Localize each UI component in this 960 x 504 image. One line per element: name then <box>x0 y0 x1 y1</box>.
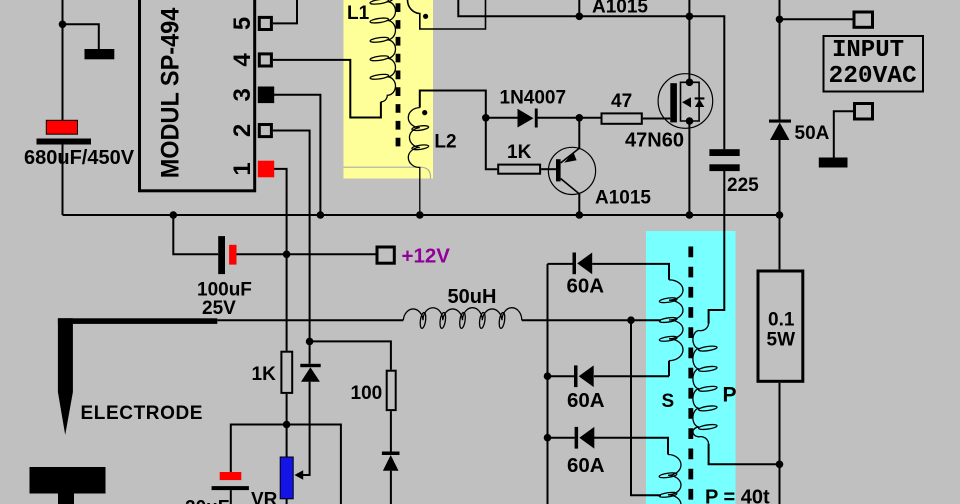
svg-text:1N4007: 1N4007 <box>500 88 567 109</box>
wire: electrode line to 50uH <box>217 319 403 321</box>
wire: L2 to 1N4007 node <box>420 91 486 118</box>
svg-text:20uF: 20uF <box>185 498 229 504</box>
wire: pin 5 to top edge <box>273 0 297 23</box>
wire: branch from node to snubber block <box>63 24 99 49</box>
S lower crossing ellipses <box>659 472 677 498</box>
pin 1 square (red) <box>258 161 274 178</box>
MOSFET 47N60 <box>658 74 713 129</box>
svg-text:5: 5 <box>229 17 256 30</box>
wire: 1K bottom to VR node and VR top <box>286 394 288 457</box>
wire: feedback node to zener and VR wiper <box>303 341 310 475</box>
wire: upper A1015 collector stub <box>578 0 580 16</box>
svg-text:50A: 50A <box>795 123 830 144</box>
wire: AC input terminal 1 branch <box>780 18 855 20</box>
svg-text:225: 225 <box>727 175 759 196</box>
wire: MOSFET drain from top rail <box>688 0 690 82</box>
transformer T1 winding L1 <box>381 0 396 102</box>
wire: VR bottom down <box>286 499 288 504</box>
svg-text:0.1: 0.1 <box>768 310 795 331</box>
+12V terminal <box>377 247 394 263</box>
junction: 680uF node <box>59 21 67 29</box>
electrode lead bar <box>58 318 217 324</box>
transformer T1 highlight region (yellow) <box>344 0 434 179</box>
wire: MOSFET source to ground bus <box>688 121 690 215</box>
wire: 225 cap to primary P top <box>709 171 725 324</box>
wire: diode row 3 to lower S <box>548 438 669 455</box>
svg-text:47: 47 <box>611 91 632 112</box>
wire: 50uH to S center tap <box>522 319 661 321</box>
resistor 1K (driver) <box>498 142 540 174</box>
wire: 100uF to +12V node <box>237 253 287 255</box>
wire: +12V node to terminal <box>287 253 377 255</box>
svg-text:3: 3 <box>229 88 256 101</box>
diode 60A (row 2) <box>567 365 605 412</box>
svg-text:INPUT: INPUT <box>832 37 904 64</box>
svg-text:P = 40t: P = 40t <box>705 487 770 504</box>
wire: primary P bottom to 0.1 node <box>709 444 780 465</box>
junction: feedback node <box>306 338 314 346</box>
svg-text:25V: 25V <box>202 298 236 319</box>
P crossing ellipses <box>698 345 717 430</box>
svg-text:60A: 60A <box>567 389 605 412</box>
svg-text:A1015: A1015 <box>595 188 651 209</box>
diode 50A <box>769 120 830 145</box>
junction: +12V node <box>283 251 291 259</box>
svg-text:1K: 1K <box>252 364 277 385</box>
resistor 100 (vertical) <box>351 371 396 410</box>
svg-text:680uF/450V: 680uF/450V <box>24 147 135 169</box>
svg-text:ELECTRODE: ELECTRODE <box>81 403 204 424</box>
wire: 1K to A1015 base <box>541 168 556 170</box>
wire: center tap rail down to lower S tap <box>631 320 661 495</box>
L1 crossing ellipses <box>370 0 389 80</box>
wire: left rail from top to 680uF cap <box>62 0 64 120</box>
svg-text:MODUL SP-494: MODUL SP-494 <box>157 7 185 178</box>
resistor 47 <box>602 91 642 124</box>
svg-text:50uH: 50uH <box>448 286 497 308</box>
wire: gate node to 47 resistor to MOSFET gate <box>643 118 671 120</box>
wire: rectifier output rail <box>547 264 549 504</box>
svg-text:4: 4 <box>229 53 256 67</box>
svg-text:100: 100 <box>351 383 383 404</box>
junction: bus / L2 <box>416 211 424 219</box>
pin 2 square <box>259 125 271 137</box>
wire: A1015 collector to ground bus <box>578 194 580 215</box>
wire: pin 1 down to +12V node and 1K <box>273 169 287 351</box>
svg-text:220VAC: 220VAC <box>829 63 918 90</box>
T2 secondary winding S upper <box>669 280 683 361</box>
wire: 0.1 resistor bottom down <box>779 383 781 504</box>
T2 primary winding P <box>693 324 709 444</box>
svg-text:1: 1 <box>229 162 256 175</box>
junction: top rail / upper A1015 <box>576 12 584 20</box>
capacitor 20uF positive plate <box>220 472 242 480</box>
junction: top rail / MOSFET drain <box>686 12 694 20</box>
junction: bus / MOSFET source <box>686 211 694 219</box>
capacitor 20uF negative plate <box>212 486 249 490</box>
wire: 50A diode to bus and 0.1 resistor <box>779 140 781 269</box>
diode 1N4007 <box>500 88 567 128</box>
AC input terminal 1 <box>854 12 873 27</box>
AC neutral bar <box>819 158 848 168</box>
junction: AC live / terminal <box>776 15 784 23</box>
resistor 1K (vertical) <box>252 352 293 393</box>
capacitor 225 <box>709 149 759 196</box>
transistor A1015 (driver) <box>548 147 595 194</box>
svg-text:+12V: +12V <box>402 245 451 268</box>
diode 60A (row 1) <box>567 253 605 298</box>
junction: bus / A1015 collector <box>576 211 584 219</box>
wire: 1N4007 cathode to gate node <box>538 117 601 119</box>
wire: gate node down to A1015 emitter <box>578 118 580 148</box>
potentiometer VR body <box>280 457 293 499</box>
wire: AC live rail down to 50A diode <box>779 0 781 120</box>
svg-text:2: 2 <box>229 124 256 137</box>
wire: 680uF negative to ground bus <box>62 145 64 216</box>
transformer T2 highlight region (cyan) <box>646 231 736 504</box>
junction: S center tap <box>627 316 635 324</box>
svg-text:5W: 5W <box>767 330 796 351</box>
S upper crossing ellipses <box>659 297 677 342</box>
T1 upper winding polarity dot <box>423 14 428 19</box>
wire: 20uF bottom down <box>230 490 232 504</box>
wire: top rail A to 225 cap <box>458 0 724 149</box>
svg-text:1K: 1K <box>507 142 532 163</box>
svg-text:L2: L2 <box>434 132 456 153</box>
zener diode (feedback) <box>300 364 320 382</box>
AC input terminal 2 <box>855 104 873 120</box>
pin 3 square (black) <box>258 87 274 104</box>
L2 crossing ellipses <box>412 125 429 151</box>
wire: node to 1N4007 anode <box>486 117 518 119</box>
junction: rail / diode row 3 <box>544 434 552 442</box>
svg-text:S: S <box>662 391 675 412</box>
junction: bus / pin3 <box>317 211 325 219</box>
T1 core dashed line <box>396 3 401 148</box>
wire: node down to 1K resistor <box>486 118 497 169</box>
svg-text:60A: 60A <box>567 454 605 477</box>
diode (below 100) <box>382 452 400 471</box>
wire: pin 4 to L1 winding bottom <box>273 60 381 118</box>
pin 5 square <box>259 17 271 29</box>
junction: bus / 100uF tap <box>170 211 178 219</box>
T2 secondary winding S lower <box>668 455 681 504</box>
T2 core dashed line <box>688 247 693 504</box>
junction: L2 / 1N4007 / 1K <box>482 114 490 122</box>
capacitor 100uF plates <box>197 236 252 319</box>
junction: gate drive node <box>576 114 584 122</box>
wire: VR node left to 20uF <box>231 425 287 473</box>
transformer T1 winding L2 <box>408 108 419 215</box>
wire: feedback node to 100 resistor branch <box>310 341 391 504</box>
wire: VR node right branch down <box>287 425 341 504</box>
svg-text:L1: L1 <box>347 3 370 24</box>
wire: main ground bus <box>63 214 780 216</box>
wire: pin 3 to ground bus <box>273 95 321 215</box>
wire: bus tap down to 100uF <box>173 215 218 254</box>
VR wiper arrow <box>294 470 303 479</box>
inductor 50uH <box>403 308 522 329</box>
snubber block (black) <box>85 49 115 59</box>
junction: bus / 50A rail <box>776 211 784 219</box>
capacitor 680uF/450V positive plate <box>46 120 77 134</box>
electrode symbol <box>58 318 73 435</box>
pin 4 square <box>259 54 271 66</box>
T1 secondary upper winding stub <box>407 0 485 29</box>
svg-text:60A: 60A <box>567 275 605 298</box>
svg-text:P: P <box>723 384 737 407</box>
junction: VR node <box>283 421 291 429</box>
svg-text:47N60: 47N60 <box>625 130 684 152</box>
junction: P bottom / 0.1 <box>776 461 784 469</box>
resistor 0.1 5W <box>758 271 803 381</box>
work clamp symbol <box>30 467 106 504</box>
wire: diode row 1 <box>548 264 670 280</box>
L2 polarity dot <box>422 110 427 115</box>
svg-text:A1015: A1015 <box>592 0 648 18</box>
wire: diode row 2 <box>548 361 670 377</box>
svg-text:VR: VR <box>251 490 278 504</box>
INPUT 220VAC box <box>824 36 924 92</box>
junction: rail / diode row 2 <box>544 372 552 380</box>
wire: AC input terminal 2 to bar <box>834 111 854 157</box>
diode 60A (row 3) <box>567 427 605 477</box>
MODUL SP-494 module body <box>140 0 255 191</box>
capacitor 680uF/450V negative plate <box>37 139 92 145</box>
wire: pin 2 down to feedback node <box>273 131 310 342</box>
